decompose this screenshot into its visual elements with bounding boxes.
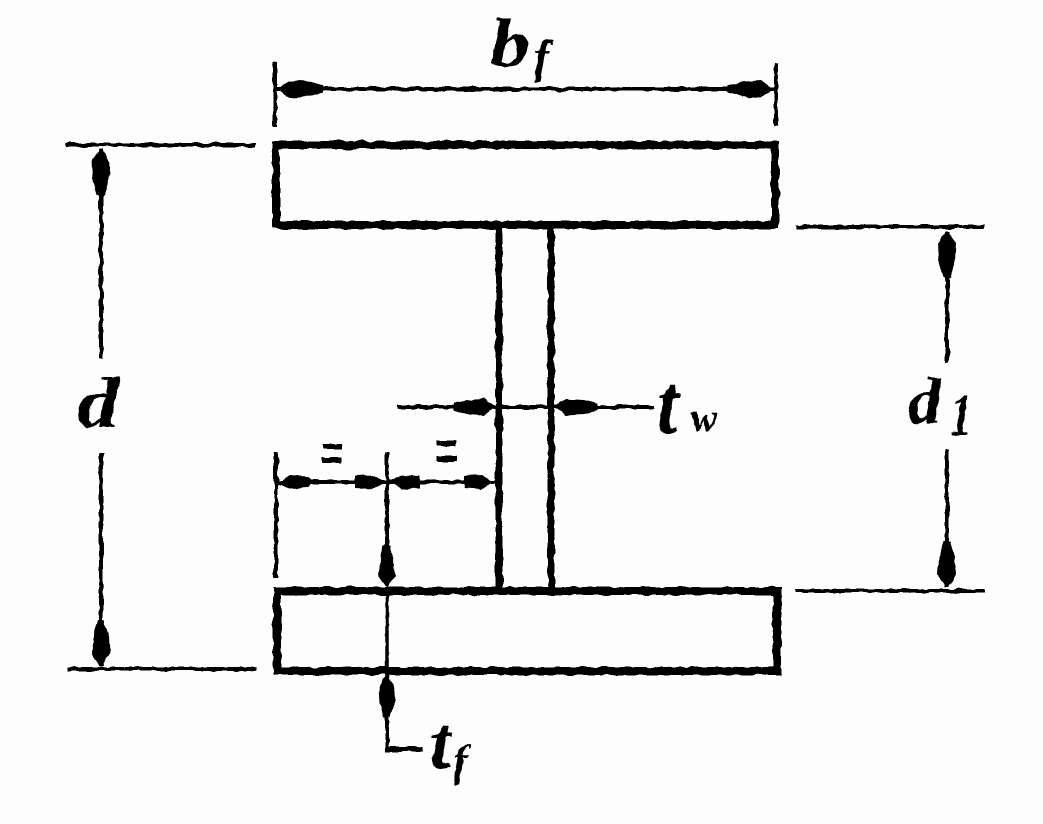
web left line [496,228,503,591]
d1 dimension top extension line [795,225,984,229]
label t_f [430,702,471,785]
b_f dimension line [277,87,774,91]
svg-text:d: d [908,365,942,438]
t_w right-pointing arrowhead [453,399,496,415]
d dimension bottom extension line [67,667,257,671]
bottom flange [277,591,777,671]
d1 dimension bottom extension line [795,589,984,593]
equal-span left arrowhead [278,475,310,489]
d dimension upper line with up arrow [92,149,110,358]
b_f left arrowhead [278,80,323,98]
svg-text:w: w [691,395,718,440]
b_f dimension left extension line [273,63,277,127]
equal-span mid left-pointing arrowhead [390,475,420,489]
t_f leader horizontal segment [385,747,423,752]
svg-text:1: 1 [951,382,972,448]
b_f dimension right extension line [774,64,778,126]
label d1 [908,365,972,448]
equal-span dimension line [277,480,497,484]
t_w dimension line [398,405,655,409]
d dimension lower line with down arrow [92,452,110,666]
top flange [276,145,775,225]
d dimension top extension line [65,143,256,147]
t_f lower leader line with up arrow [379,674,395,749]
label b_f [490,5,554,82]
d1 dimension upper line with up arrow [938,231,956,362]
equals mark right [437,441,456,462]
svg-text:t: t [657,356,681,452]
web right line [548,228,555,591]
t_f upper leader line with down arrow [379,452,395,588]
equals mark left [322,444,342,463]
svg-text:b: b [490,5,530,81]
label t_w [657,356,718,452]
t_f line through flange [385,594,389,668]
t_w left-pointing arrowhead [554,399,597,415]
svg-text:t: t [430,702,453,785]
equal-span mid right-pointing arrowhead [355,475,385,489]
equal-span dimension left extension line [274,452,278,578]
equal-span right arrowhead [464,475,494,489]
d1 dimension lower line with down arrow [938,450,956,587]
b_f right arrowhead [728,80,773,98]
svg-text:d: d [77,363,120,443]
